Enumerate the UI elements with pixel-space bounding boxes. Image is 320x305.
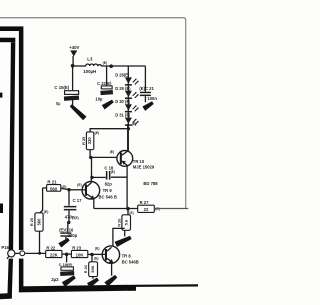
svg-text:R 22: R 22 [46, 245, 56, 250]
svg-text:P16: P16 [1, 245, 9, 250]
svg-text:330: 330 [87, 137, 92, 145]
svg-text:C 15(E): C 15(E) [54, 85, 69, 90]
svg-text:(E): (E) [110, 150, 115, 154]
svg-text:560: 560 [50, 187, 58, 192]
svg-text:R 24: R 24 [84, 264, 88, 273]
svg-text:(E): (E) [94, 257, 98, 261]
svg-text:BC 546B: BC 546B [122, 259, 139, 264]
svg-text:2µ2: 2µ2 [51, 277, 59, 282]
svg-text:0µ: 0µ [56, 101, 61, 106]
svg-text:TR 8: TR 8 [122, 254, 132, 259]
svg-text:560: 560 [36, 218, 41, 226]
svg-text:L3: L3 [87, 57, 93, 62]
svg-text:BD 788: BD 788 [143, 181, 158, 186]
svg-text:(E): (E) [44, 210, 49, 214]
svg-text:D 28(E): D 28(E) [115, 72, 130, 77]
svg-text:(E): (E) [77, 183, 82, 187]
svg-text:C 22(E): C 22(E) [97, 81, 112, 86]
svg-text:(E): (E) [95, 247, 100, 251]
svg-text:(E): (E) [95, 131, 100, 135]
svg-text:10µ: 10µ [95, 97, 103, 102]
svg-text:R 20: R 20 [29, 218, 34, 226]
svg-text:(E)C 16: (E)C 16 [59, 227, 74, 232]
svg-text:TR 9: TR 9 [103, 188, 113, 193]
svg-text:(E)C 21: (E)C 21 [139, 86, 154, 91]
svg-text:R 26: R 26 [117, 219, 121, 227]
svg-text:(E): (E) [62, 185, 66, 189]
svg-text:82p: 82p [105, 182, 113, 187]
svg-text:TR 10: TR 10 [133, 159, 145, 164]
svg-text:D 30 (F): D 30 (F) [115, 99, 131, 104]
svg-text:(E): (E) [74, 216, 78, 220]
svg-text:R 21: R 21 [47, 179, 57, 184]
svg-text:39K: 39K [90, 265, 95, 272]
svg-text:(E): (E) [129, 211, 133, 215]
svg-text:R 23: R 23 [72, 245, 82, 250]
svg-text:470p: 470p [65, 214, 75, 219]
svg-text:22K: 22K [50, 252, 59, 257]
svg-text:R 27: R 27 [140, 200, 150, 205]
svg-text:22: 22 [144, 207, 149, 212]
svg-text:D 31 (F): D 31 (F) [115, 113, 131, 118]
svg-text:D 29 (E): D 29 (E) [115, 86, 131, 91]
svg-text:10K: 10K [76, 252, 85, 257]
svg-text:(E): (E) [103, 61, 108, 65]
svg-text:(E): (E) [132, 122, 137, 126]
svg-text:100n: 100n [147, 96, 157, 101]
svg-text:MJE 15029: MJE 15029 [133, 165, 155, 170]
svg-text:(E): (E) [111, 170, 115, 174]
svg-text:C 17: C 17 [73, 198, 83, 203]
svg-text:+40V: +40V [69, 45, 79, 50]
svg-text:5.6: 5.6 [123, 219, 128, 225]
svg-text:220p: 220p [68, 233, 78, 238]
svg-text:BC 546 B: BC 546 B [99, 194, 117, 199]
svg-text:100µH: 100µH [83, 69, 96, 74]
svg-text:R 25: R 25 [81, 136, 86, 145]
